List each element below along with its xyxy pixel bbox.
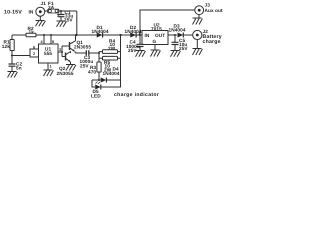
ground (under C1): [57, 21, 67, 27]
ground (under U1): [44, 70, 54, 76]
wire R1 junction to U1 pins: [12, 49, 39, 57]
node R3 bottom junction: [98, 79, 100, 81]
capacitor C4 1000u: [139, 35, 141, 44]
svg-text:charge: charge: [203, 39, 221, 45]
node C1 junction: [60, 10, 62, 12]
svg-text:1N4004: 1N4004: [169, 28, 186, 33]
svg-text:25V: 25V: [179, 46, 188, 51]
node C5 junction: [174, 34, 176, 36]
svg-text:1: 1: [50, 64, 52, 68]
svg-text:2N3055: 2N3055: [74, 44, 91, 49]
svg-text:IN: IN: [145, 33, 150, 38]
connector J1: [36, 7, 45, 16]
wire U2 out: [168, 34, 193, 36]
ground (under J3): [193, 14, 203, 24]
svg-text:8: 8: [52, 40, 54, 44]
ground (under C5): [171, 51, 181, 57]
wire F1 to C1 to input drop: [59, 10, 77, 12]
svg-text:Aux out: Aux out: [205, 8, 223, 13]
node C3/R junction: [98, 52, 100, 54]
svg-text:2: 2: [33, 52, 35, 56]
svg-text:3: 3: [59, 48, 61, 52]
node pin3 junction: [61, 51, 63, 53]
ground (under U2 G): [151, 50, 161, 57]
capacitor C1: [60, 11, 62, 14]
svg-text:charge indicator: charge indicator: [114, 92, 159, 98]
svg-text:OUT: OUT: [155, 33, 165, 38]
wire LED branch: [92, 80, 121, 87]
ground (under C2): [8, 72, 18, 78]
wire aux branch: [140, 10, 195, 35]
svg-text:1N4004: 1N4004: [92, 29, 109, 34]
svg-text:J1: J1: [41, 1, 47, 6]
wire right vertical (bus to D4/LED): [120, 35, 122, 87]
wire base drive: [61, 46, 63, 57]
svg-text:LED: LED: [91, 94, 101, 99]
svg-text:25V: 25V: [64, 17, 73, 22]
resistor R1 12k: [11, 35, 13, 40]
wire emitter line: [75, 52, 99, 54]
wire D4 line: [92, 79, 121, 81]
ground (under C4): [136, 51, 146, 57]
svg-text:J3: J3: [205, 3, 211, 8]
capacitor C5 10u: [174, 35, 176, 42]
capacitor C3 1000u: [86, 50, 89, 56]
svg-text:555: 555: [44, 51, 52, 56]
svg-text:470: 470: [88, 70, 96, 75]
wire J1 to F1: [45, 10, 48, 12]
node R1/C2 junction: [11, 54, 13, 56]
op-amp U1 555 timer: [39, 44, 59, 63]
capacitor C2 5n: [9, 64, 16, 66]
svg-text:5n: 5n: [16, 66, 22, 71]
svg-text:10-15V: 10-15V: [4, 9, 22, 15]
connector J3 aux out: [195, 6, 204, 15]
wire main bus: [12, 34, 142, 36]
svg-text:12k: 12k: [2, 44, 10, 49]
svg-text:2W: 2W: [108, 46, 116, 51]
svg-text:25V: 25V: [80, 63, 89, 68]
svg-text:IN: IN: [29, 9, 34, 14]
svg-text:G: G: [153, 39, 157, 44]
connector J2 battery: [193, 30, 202, 39]
svg-text:6: 6: [33, 45, 35, 49]
ground (under Q2): [66, 65, 76, 71]
svg-text:1N4004: 1N4004: [103, 71, 120, 76]
node bus junctions: [43, 34, 45, 36]
ground (under J1): [36, 16, 46, 26]
wire input drop vertical: [76, 11, 78, 35]
wire R4R5 left vertical: [98, 52, 100, 62]
LED D5 charge indicator: [95, 85, 101, 90]
resistor R5 10 2W: [103, 56, 118, 60]
svg-text:2N3055: 2N3055: [57, 71, 74, 76]
ground (under J2): [193, 40, 203, 55]
